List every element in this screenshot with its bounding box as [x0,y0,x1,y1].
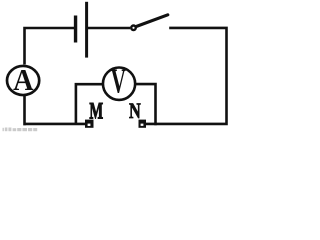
watermark [3,128,38,132]
wire: voltmeter right stub and drop to bottom rail [134,84,156,125]
ammeter label A [13,64,34,97]
battery cell: long plate (positive) [85,2,88,58]
wire: voltmeter left stub and drop to node M junction [76,84,104,124]
switch S pivot circle [131,26,136,31]
svg-text:V: V [111,62,126,101]
ammeter body [7,66,39,95]
svg-text:A: A [13,64,34,97]
wire: switch contact, right rail and bottom rail to terminal N [145,28,227,124]
battery cell: short plate (negative) [74,16,77,43]
voltmeter label V [111,62,126,101]
terminal N (binding post square) [139,120,147,128]
svg-text:N: N [129,100,141,124]
terminal M (binding post square) [85,120,94,128]
wire: battery positive to switch pivot [88,27,130,30]
wire: ammeter bottom down to bottom rail [23,95,85,126]
svg-text:M: M [89,99,103,124]
node label M [89,99,103,124]
wire: left rail from top corner down to ammeter [25,28,75,65]
switch S blade (open) [136,15,168,27]
voltmeter body [103,68,135,100]
node label N [129,100,141,124]
